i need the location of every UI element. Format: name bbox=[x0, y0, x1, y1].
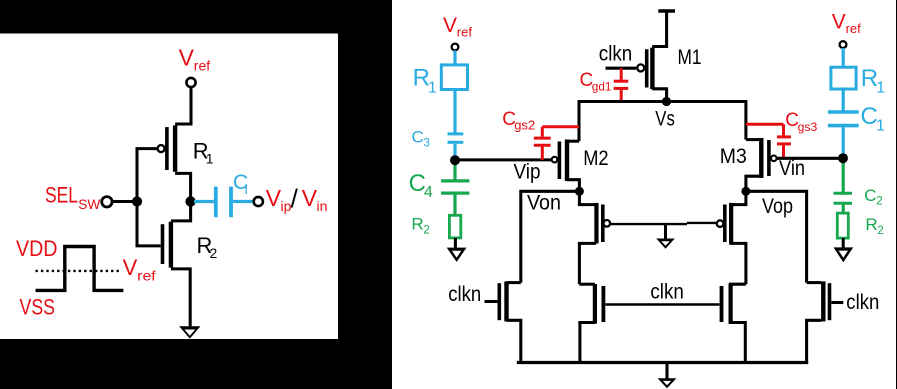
capacitor Cgs3 wire to drain bbox=[746, 123, 784, 126]
svg-text:V: V bbox=[302, 185, 318, 211]
supply bar (top) bbox=[658, 9, 675, 12]
wire Vip node to M2 gate bbox=[454, 158, 551, 161]
capacitor C2 plate 2 bbox=[834, 202, 853, 205]
wire bottom rail bbox=[517, 361, 808, 364]
svg-text:Vs: Vs bbox=[655, 108, 675, 131]
wire PMOS gates (grounded) left segment bbox=[611, 223, 687, 225]
resistor R1 left (box) bbox=[441, 65, 467, 90]
transistor PMOS right gate plate bbox=[723, 205, 727, 243]
svg-text:Vop: Vop bbox=[762, 195, 793, 218]
wire mid-ground stub bbox=[664, 224, 667, 239]
ground (right panel left) bbox=[447, 248, 467, 262]
svg-text:R: R bbox=[865, 215, 877, 234]
wire PMOS gates (grounded) right segment bbox=[687, 222, 716, 224]
ground (bottom) bbox=[658, 378, 677, 388]
wire clkn mid-left source bbox=[580, 323, 595, 363]
capacitor C1 plate 1 bbox=[828, 110, 859, 114]
svg-text:C: C bbox=[864, 186, 876, 205]
resistor R1 right (box) bbox=[831, 67, 856, 89]
svg-text:1: 1 bbox=[876, 118, 885, 135]
svg-text:Vip: Vip bbox=[514, 161, 541, 184]
svg-text:Vin: Vin bbox=[779, 157, 805, 180]
transistor M3 drain step bbox=[746, 138, 761, 141]
transistor M3 channel bbox=[759, 138, 763, 178]
transistor PMOS right gate bubble bbox=[717, 220, 724, 227]
capacitor Cgs2 stub bottom bbox=[541, 147, 544, 160]
svg-text:V: V bbox=[179, 45, 195, 71]
wire PMOS left source down bbox=[579, 243, 596, 284]
svg-text:ref: ref bbox=[194, 58, 210, 74]
svg-text:M1: M1 bbox=[678, 46, 702, 69]
capacitor C3 plate 2 bbox=[448, 141, 464, 144]
ground (right panel right) bbox=[834, 247, 854, 262]
transistor PMOS left channel bbox=[594, 203, 598, 244]
svg-text:2: 2 bbox=[876, 196, 882, 208]
transistor PMOS left gate bubble bbox=[604, 220, 611, 227]
wire output to Ci bbox=[194, 200, 214, 203]
svg-text:V: V bbox=[266, 185, 282, 211]
wire bottom ground stub bbox=[665, 363, 668, 380]
svg-text:V: V bbox=[443, 14, 457, 37]
transistor R2 channel bbox=[169, 222, 173, 268]
svg-text:SW: SW bbox=[78, 196, 101, 212]
svg-text:4: 4 bbox=[424, 184, 433, 201]
svg-text:gs3: gs3 bbox=[798, 120, 818, 134]
svg-text:1: 1 bbox=[428, 79, 437, 96]
capacitor Cgd1 stub top bbox=[620, 68, 623, 80]
wire clkn far-left source bbox=[506, 320, 520, 362]
wire R2 source to ground bbox=[171, 269, 190, 327]
wire Vs rail bbox=[579, 102, 746, 142]
capacitor Cgs3 stub top bbox=[782, 124, 785, 135]
dotted Vref level line bbox=[36, 270, 123, 272]
node Vs bbox=[662, 97, 671, 106]
node SEL junction bbox=[132, 196, 142, 206]
wire clkn far-right gate stub bbox=[831, 301, 843, 304]
transistor clkn mid-right gate plate bbox=[720, 286, 724, 322]
wire R1 drain to output node bbox=[175, 173, 191, 201]
transistor R1 gate bubble bbox=[158, 145, 165, 152]
transistor M3 gate bubble bbox=[771, 156, 777, 162]
wire C1 to node Vin bbox=[842, 127, 845, 156]
node Vin junction bbox=[838, 153, 848, 163]
transistor clkn mid-right drain step bbox=[729, 283, 746, 286]
svg-text:2: 2 bbox=[423, 224, 429, 236]
wire clkn mid gate rail bbox=[606, 303, 720, 306]
transistor clkn far-right channel bbox=[821, 281, 825, 321]
transistor M2 gate plate bbox=[558, 142, 562, 180]
svg-text:ref: ref bbox=[846, 21, 862, 36]
svg-text:V: V bbox=[832, 10, 846, 33]
transistor M1 gate plate bbox=[645, 49, 649, 87]
node output (drain) junction bbox=[185, 196, 195, 206]
transistor R1 (PMOS) channel bbox=[173, 125, 177, 171]
capacitor C4 plate 2 bbox=[441, 192, 469, 195]
wire R1 to C1 bbox=[842, 89, 845, 111]
wire Vop to PMOS pair right bbox=[729, 191, 746, 204]
svg-text:2: 2 bbox=[877, 225, 883, 237]
svg-text:clkn: clkn bbox=[650, 281, 684, 304]
wire R1 to C3 bbox=[453, 90, 456, 133]
svg-text:in: in bbox=[317, 198, 328, 214]
capacitor Cgd1 stub bottom bbox=[620, 90, 623, 102]
wire R2 to ground bbox=[454, 238, 457, 248]
node Von bbox=[575, 187, 584, 196]
terminal Vref right bbox=[840, 41, 847, 48]
wire Von to left clkn switch bbox=[521, 191, 580, 282]
transistor M1 channel bbox=[650, 48, 654, 90]
transistor clkn far-left gate plate bbox=[498, 283, 502, 320]
capacitor Cgs2 plate 2 bbox=[534, 144, 551, 147]
transistor M1 gate bubble bbox=[637, 64, 644, 71]
svg-text:SEL: SEL bbox=[45, 183, 78, 208]
node Vop bbox=[741, 187, 750, 196]
svg-text:C: C bbox=[412, 128, 424, 147]
svg-text:gd1: gd1 bbox=[592, 80, 612, 94]
svg-text:clkn: clkn bbox=[846, 291, 879, 314]
transistor M2 gate bubble bbox=[552, 157, 558, 163]
transistor M2 channel bbox=[565, 140, 569, 182]
wire clkn mid-right source bbox=[729, 323, 746, 363]
wire clkn far-right source bbox=[807, 320, 822, 362]
wire M3 source to Vop bbox=[746, 176, 761, 191]
transistor M3 gate plate bbox=[767, 140, 771, 176]
capacitor C4 plate 1 bbox=[441, 179, 469, 182]
svg-text:2: 2 bbox=[210, 245, 218, 261]
wire supply to M1 source bbox=[652, 11, 666, 47]
wire PMOS right source down bbox=[729, 243, 746, 284]
svg-text:M3: M3 bbox=[720, 145, 747, 168]
wire common gate (R1/R2) bbox=[137, 149, 161, 246]
capacitor C1 plate 2 bbox=[828, 124, 859, 128]
capacitor C2 plate 1 bbox=[834, 192, 853, 195]
resistor R2 right (box) bbox=[837, 213, 848, 238]
svg-text:3: 3 bbox=[424, 137, 430, 149]
transistor clkn mid-left gate plate bbox=[602, 286, 606, 322]
wire R2 to ground right bbox=[842, 238, 845, 248]
resistor R2 left (box) bbox=[449, 215, 460, 238]
capacitor Cgs3 stub bottom bbox=[782, 145, 785, 158]
svg-text:clkn: clkn bbox=[599, 42, 633, 65]
wire clkn to M1 gate bbox=[606, 67, 637, 70]
transistor clkn mid-left drain step bbox=[579, 283, 595, 286]
transistor PMOS left gate plate bbox=[601, 205, 605, 243]
capacitor C3 plate 1 bbox=[448, 132, 464, 135]
svg-text:clkn: clkn bbox=[448, 283, 481, 306]
terminal Vref left bbox=[452, 44, 459, 51]
terminal Vip/Vin bbox=[254, 197, 263, 206]
wire Vref to R1 (blue) bbox=[453, 50, 456, 66]
transistor R2 (NMOS) drain wire bbox=[171, 202, 191, 221]
transistor R2 gate plate bbox=[161, 224, 165, 264]
svg-text:ref: ref bbox=[457, 24, 473, 39]
svg-text:ref: ref bbox=[137, 268, 156, 284]
capacitor Cgs3 plate 1 bbox=[777, 135, 791, 138]
capacitor Ci plate 1 bbox=[214, 187, 218, 218]
node Vip junction bbox=[450, 155, 460, 165]
terminal Vref bbox=[186, 78, 195, 87]
transistor clkn far-left channel bbox=[504, 281, 508, 321]
wire node to C2 (green) bbox=[842, 158, 845, 192]
svg-text:gs2: gs2 bbox=[514, 118, 535, 133]
transistor PMOS right channel bbox=[729, 203, 733, 244]
transistor clkn far-left drain step bbox=[506, 281, 520, 284]
wire Vref to R1 source bbox=[175, 87, 191, 124]
svg-text:1: 1 bbox=[876, 80, 885, 97]
ground (left panel) bbox=[179, 326, 200, 338]
wire C3 to node Vip bbox=[453, 144, 456, 158]
svg-text:1: 1 bbox=[206, 151, 214, 167]
transistor clkn far-right gate plate bbox=[828, 283, 832, 320]
wire clkn far-left gate stub bbox=[485, 300, 498, 303]
wire Vref to R1 right (blue) bbox=[842, 48, 845, 68]
svg-text:Von: Von bbox=[527, 192, 561, 215]
wire M1 drain to Vs node bbox=[652, 89, 666, 102]
capacitor Cgd1 plate 1 bbox=[614, 80, 629, 83]
wire node to C4 (green) bbox=[453, 160, 456, 179]
svg-text:/: / bbox=[291, 184, 299, 214]
transistor clkn mid-right channel bbox=[729, 284, 733, 324]
capacitor Cgs2 stub top bbox=[541, 127, 544, 137]
wire Ci to terminal bbox=[233, 200, 254, 203]
transistor R1 gate plate bbox=[165, 127, 169, 170]
svg-text:R: R bbox=[411, 215, 423, 234]
ground (PMOS gates) bbox=[656, 239, 675, 249]
capacitor Cgd1 plate 2 bbox=[614, 87, 629, 90]
svg-text:i: i bbox=[245, 181, 248, 197]
wire SEL to gate bbox=[112, 200, 137, 203]
svg-text:M2: M2 bbox=[583, 147, 608, 170]
capacitor Cgs2 wire to drain bbox=[542, 125, 579, 128]
wire C2 to R2 right bbox=[842, 205, 845, 214]
transistor clkn mid-left channel bbox=[593, 284, 597, 324]
wire Von to PMOS pair left bbox=[579, 191, 596, 204]
svg-text:VDD: VDD bbox=[16, 236, 58, 261]
transistor M2 drain step bbox=[567, 140, 579, 143]
svg-text:VSS: VSS bbox=[20, 295, 56, 320]
capacitor Cgs3 plate 2 bbox=[777, 142, 791, 145]
terminal SELsw bbox=[102, 197, 112, 207]
wire C4 to R2 bbox=[453, 195, 456, 216]
capacitor Cgs2 plate 1 bbox=[534, 137, 551, 140]
capacitor Ci plate 2 bbox=[229, 187, 233, 218]
transistor clkn far-right drain step bbox=[807, 281, 822, 284]
wire Vop to right clkn switch bbox=[746, 191, 807, 282]
svg-text:V: V bbox=[123, 255, 138, 280]
waveform pulse VDD/VSS bbox=[36, 247, 124, 291]
wire Vin node to M3 gate bbox=[777, 157, 843, 160]
wire M2 source to Von bbox=[567, 180, 579, 192]
